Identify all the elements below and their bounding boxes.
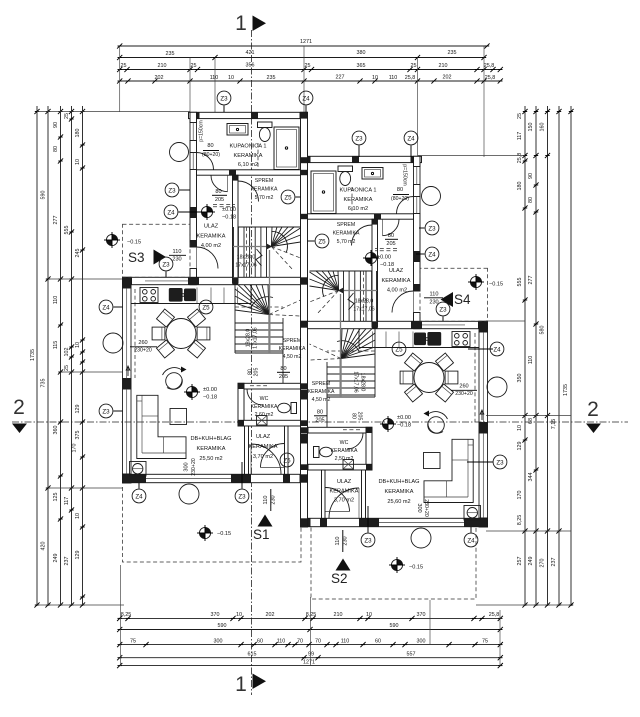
toilet upper	[258, 122, 273, 128]
section marker 1 bottom	[235, 673, 266, 696]
svg-text:1735: 1735	[30, 349, 36, 361]
bathroom door arc	[211, 175, 228, 192]
swivel chair	[163, 367, 187, 390]
left wall living section	[123, 277, 132, 288]
svg-text:277: 277	[53, 216, 59, 225]
svg-text:68: 68	[528, 418, 534, 424]
left housing unit graphics (also mirrored for right unit)	[103, 112, 308, 504]
level marker left entry	[199, 204, 215, 220]
svg-text:300: 300	[416, 503, 422, 512]
svg-text:344: 344	[528, 473, 534, 482]
svg-text:KERAMIKA: KERAMIKA	[197, 446, 226, 452]
ulaz/living divider walls	[245, 426, 249, 474]
svg-text:Z3: Z3	[364, 537, 372, 544]
svg-text:S4: S4	[454, 292, 471, 307]
svg-text:ULAZ: ULAZ	[256, 434, 271, 440]
svg-text:Z5: Z5	[395, 346, 403, 353]
svg-text:205: 205	[357, 412, 363, 421]
interior door ulaz-living left	[261, 444, 285, 468]
svg-text:KERAMIKA: KERAMIKA	[251, 187, 278, 193]
svg-text:110: 110	[389, 75, 398, 81]
svg-text:DB+KUH+BLAG: DB+KUH+BLAG	[378, 479, 419, 485]
svg-text:10: 10	[75, 159, 81, 165]
svg-text:110: 110	[341, 639, 350, 645]
svg-text:260: 260	[138, 340, 147, 346]
svg-text:ULAZ: ULAZ	[337, 479, 352, 485]
svg-text:7,15: 7,15	[551, 419, 557, 430]
svg-text:SPREM: SPREM	[337, 222, 355, 228]
svg-text:25,8: 25,8	[517, 153, 523, 164]
svg-text:±0.00: ±0.00	[222, 207, 236, 213]
window vent circle	[103, 333, 123, 353]
svg-text:Z4: Z4	[135, 493, 143, 500]
svg-text:SPREM: SPREM	[312, 381, 330, 387]
svg-text:237: 237	[551, 558, 557, 567]
left dimension strip	[30, 106, 85, 608]
svg-text:80: 80	[388, 233, 394, 239]
stair lower fan and treads	[235, 250, 301, 383]
svg-text:25,8: 25,8	[484, 63, 495, 69]
left unit room labels	[127, 120, 306, 537]
svg-text:Z3: Z3	[439, 306, 447, 313]
svg-text:210: 210	[334, 612, 343, 618]
svg-text:25,60 m2: 25,60 m2	[387, 499, 410, 505]
label Z5	[281, 190, 295, 204]
svg-text:Z3: Z3	[496, 459, 504, 466]
svg-text:KERAMIKA: KERAMIKA	[308, 389, 335, 395]
level marker right entry	[363, 250, 379, 266]
sprem5 floor line	[238, 226, 301, 228]
svg-text:18x28,0: 18x28,0	[355, 299, 374, 305]
label Z3	[159, 257, 173, 271]
svg-text:150: 150	[528, 123, 534, 132]
spram room wall (ulaz/stair divider)	[233, 175, 239, 283]
svg-text:±0.00: ±0.00	[377, 255, 391, 261]
svg-text:WC: WC	[340, 440, 349, 446]
label Z4	[404, 131, 418, 145]
svg-text:KERAMIKA: KERAMIKA	[344, 197, 373, 203]
svg-text:590: 590	[390, 623, 399, 629]
svg-text:129: 129	[517, 442, 523, 451]
svg-text:2,50 m2: 2,50 m2	[335, 456, 354, 462]
level marker bottom right	[389, 557, 405, 573]
svg-text:8,25: 8,25	[517, 515, 523, 526]
window2 80+20	[189, 153, 191, 170]
svg-text:110: 110	[335, 537, 341, 546]
svg-text:KERAMIKA: KERAMIKA	[279, 346, 306, 352]
svg-text:17x17,06: 17x17,06	[353, 371, 359, 392]
svg-text:300: 300	[214, 639, 223, 645]
level marker right terrace	[468, 274, 484, 290]
svg-text:2,60 m2: 2,60 m2	[255, 412, 274, 418]
svg-text:235: 235	[166, 51, 175, 57]
label Z3	[217, 91, 231, 105]
section line 1-1 vertical	[251, 30, 253, 695]
wc room	[238, 383, 302, 426]
label Z4	[490, 342, 504, 356]
svg-text:S1: S1	[253, 527, 270, 542]
svg-text:SPREM: SPREM	[255, 178, 273, 184]
terrace S2 dashed	[311, 528, 476, 600]
svg-text:90: 90	[528, 173, 534, 179]
svg-text:270: 270	[540, 559, 546, 568]
svg-text:420: 420	[41, 542, 47, 551]
section marker 2 right	[586, 398, 601, 433]
svg-text:580: 580	[540, 326, 546, 335]
washbasin	[227, 124, 248, 136]
svg-text:−0.18: −0.18	[222, 215, 236, 221]
S1 marker	[253, 489, 277, 542]
section marker 2 left	[12, 396, 27, 433]
S3 marker	[128, 250, 166, 266]
svg-text:−0.18: −0.18	[203, 395, 217, 401]
level marker left terrace	[104, 232, 120, 248]
svg-text:375: 375	[75, 431, 81, 440]
svg-text:1735: 1735	[563, 384, 569, 396]
section line 2-2 horizontal	[12, 421, 628, 423]
svg-text:205: 205	[254, 368, 260, 377]
label Z5	[199, 300, 213, 314]
label Z3	[352, 131, 366, 145]
label Z3	[493, 455, 507, 469]
wc toilet	[291, 403, 297, 414]
coffee table	[170, 409, 187, 425]
svg-text:10: 10	[372, 75, 378, 81]
svg-text:−0.18: −0.18	[380, 262, 394, 268]
svg-text:1: 1	[235, 673, 247, 696]
svg-text:±0.00: ±0.00	[203, 387, 217, 393]
svg-text:235: 235	[448, 50, 457, 56]
S2 marker	[331, 530, 351, 586]
svg-text:Z3: Z3	[162, 261, 170, 268]
svg-text:Z4: Z4	[493, 346, 501, 353]
svg-text:Z3: Z3	[220, 95, 228, 102]
svg-text:Z5: Z5	[318, 238, 326, 245]
svg-text:129: 129	[75, 551, 81, 560]
svg-text:249: 249	[53, 554, 59, 563]
svg-text:557: 557	[407, 652, 416, 658]
window1 150cm	[189, 123, 191, 141]
svg-text:6,10 m2: 6,10 m2	[348, 206, 368, 212]
svg-text:8,25: 8,25	[121, 612, 132, 618]
svg-text:Z4: Z4	[102, 304, 110, 311]
svg-text:17x17,06: 17x17,06	[235, 263, 256, 269]
svg-text:6,10 m2: 6,10 m2	[238, 162, 258, 168]
svg-text:205: 205	[315, 418, 324, 424]
svg-text:10: 10	[236, 612, 242, 618]
svg-text:3,70 m2: 3,70 m2	[334, 498, 354, 504]
svg-text:25: 25	[121, 63, 127, 69]
svg-text:230+20: 230+20	[423, 499, 429, 517]
svg-text:2: 2	[13, 396, 25, 419]
svg-text:230+20: 230+20	[134, 348, 152, 354]
svg-text:115: 115	[53, 341, 59, 350]
svg-text:−0.15: −0.15	[409, 565, 423, 571]
svg-text:80: 80	[317, 410, 323, 416]
ulaz exterior door arc	[251, 444, 281, 474]
svg-text:205: 205	[215, 197, 224, 203]
svg-text:237: 237	[64, 557, 70, 566]
svg-text:350: 350	[517, 374, 523, 383]
left wall upper section	[190, 112, 197, 122]
svg-text:170: 170	[72, 444, 78, 453]
svg-text:257: 257	[517, 557, 523, 566]
svg-text:−0.15: −0.15	[127, 240, 141, 246]
window sliding dash	[134, 289, 136, 378]
svg-text:300: 300	[184, 462, 190, 471]
svg-text:590: 590	[218, 623, 227, 629]
svg-text:S3: S3	[128, 250, 145, 265]
svg-text:Z4: Z4	[407, 135, 415, 142]
label Z4	[132, 489, 146, 503]
svg-text:1271: 1271	[300, 39, 312, 45]
svg-text:590: 590	[41, 191, 47, 200]
svg-text:300: 300	[417, 639, 426, 645]
svg-text:80: 80	[207, 143, 213, 149]
bathroom lower wall	[197, 170, 308, 175]
bathroom window circle	[170, 143, 189, 162]
svg-text:(80+20): (80+20)	[391, 196, 409, 202]
svg-text:202: 202	[155, 75, 164, 81]
svg-text:160: 160	[540, 123, 546, 132]
svg-text:230: 230	[343, 536, 349, 545]
label Z4	[464, 533, 478, 547]
circle below bottom wall	[179, 484, 199, 504]
svg-text:60: 60	[257, 639, 263, 645]
svg-text:Z4: Z4	[302, 95, 310, 102]
svg-text:KERAMIKA: KERAMIKA	[197, 234, 226, 240]
entry door arc	[197, 247, 219, 269]
svg-text:KUPAONICA 1: KUPAONICA 1	[230, 144, 267, 150]
svg-text:10: 10	[75, 513, 81, 519]
svg-text:75: 75	[130, 639, 136, 645]
svg-text:360: 360	[53, 426, 59, 435]
svg-text:117: 117	[517, 132, 523, 141]
svg-text:180: 180	[517, 182, 523, 191]
svg-text:p=150cm: p=150cm	[199, 120, 205, 142]
svg-text:KERAMIKA: KERAMIKA	[234, 153, 263, 159]
svg-text:1271: 1271	[303, 660, 315, 666]
lower window	[122, 389, 124, 477]
bathroom threshold dashes	[213, 204, 235, 206]
svg-text:110: 110	[277, 639, 286, 645]
label Z4	[425, 247, 439, 261]
svg-text:Z5: Z5	[284, 194, 292, 201]
svg-text:277: 277	[528, 276, 534, 285]
svg-text:KERAMIKA: KERAMIKA	[249, 444, 278, 450]
svg-text:KERAMIKA: KERAMIKA	[251, 404, 278, 410]
svg-text:10: 10	[517, 425, 523, 431]
svg-text:10: 10	[228, 75, 234, 81]
label Z3	[361, 533, 375, 547]
bottom wall living	[123, 474, 308, 482]
svg-text:210: 210	[158, 63, 167, 69]
svg-text:ULAZ: ULAZ	[389, 268, 404, 274]
window arrow	[126, 366, 130, 376]
svg-text:KUPAONICA 1: KUPAONICA 1	[340, 188, 377, 194]
svg-text:110: 110	[173, 249, 182, 255]
kitchen counter	[131, 285, 251, 304]
svg-text:25: 25	[64, 113, 70, 119]
svg-text:4,50 m2: 4,50 m2	[312, 397, 331, 403]
svg-text:75: 75	[482, 639, 488, 645]
svg-text:±0.00: ±0.00	[397, 415, 411, 421]
svg-text:125: 125	[53, 493, 59, 502]
shower	[274, 127, 299, 170]
svg-text:80: 80	[215, 189, 221, 195]
top wall	[189, 112, 308, 118]
svg-text:5,70 m2: 5,70 m2	[337, 239, 356, 245]
svg-text:230+20: 230+20	[191, 458, 197, 476]
level marker left living	[184, 384, 200, 400]
svg-text:205: 205	[386, 241, 395, 247]
svg-text:180: 180	[75, 129, 81, 138]
svg-text:KERAMIKA: KERAMIKA	[385, 489, 414, 495]
svg-text:230: 230	[172, 257, 181, 263]
sofa	[137, 395, 186, 458]
svg-text:KERAMIKA: KERAMIKA	[331, 448, 358, 454]
svg-text:(80+20): (80+20)	[202, 152, 220, 158]
svg-text:25,8: 25,8	[489, 612, 500, 618]
svg-text:245: 245	[75, 249, 81, 258]
svg-text:Z3: Z3	[238, 493, 246, 500]
svg-text:102: 102	[64, 348, 70, 357]
label Z3	[235, 489, 249, 503]
label Z3	[165, 183, 179, 197]
svg-text:370: 370	[417, 612, 426, 618]
svg-text:110: 110	[210, 75, 219, 81]
svg-text:Z3: Z3	[168, 187, 176, 194]
svg-text:ULAZ: ULAZ	[204, 224, 219, 230]
svg-text:Z4: Z4	[167, 209, 175, 216]
svg-text:5,70 m2: 5,70 m2	[255, 195, 274, 201]
label Z5	[315, 234, 329, 248]
svg-text:202: 202	[443, 75, 452, 81]
terrace S1 dashed	[123, 487, 302, 562]
svg-text:227: 227	[336, 75, 345, 81]
label Z3	[99, 404, 113, 418]
wc floor box	[257, 416, 268, 426]
svg-text:80: 80	[528, 197, 534, 203]
label Z3	[436, 302, 450, 316]
svg-text:380: 380	[357, 50, 366, 56]
svg-text:356: 356	[246, 63, 255, 69]
svg-text:25,8: 25,8	[485, 75, 496, 81]
svg-text:10: 10	[75, 342, 81, 348]
svg-text:235: 235	[267, 75, 276, 81]
svg-text:25,50 m2: 25,50 m2	[199, 456, 222, 462]
svg-text:−0.15: −0.15	[217, 531, 231, 537]
level marker bottom left	[197, 525, 213, 541]
svg-text:p=150cm: p=150cm	[402, 164, 408, 186]
svg-text:421: 421	[246, 50, 255, 56]
svg-text:205: 205	[279, 374, 288, 380]
svg-text:129: 129	[75, 405, 81, 414]
svg-text:117: 117	[64, 497, 70, 506]
party wall	[301, 112, 308, 527]
svg-text:8,25: 8,25	[306, 612, 317, 618]
svg-text:3,70 m2: 3,70 m2	[253, 454, 273, 460]
svg-text:25: 25	[64, 365, 70, 371]
svg-text:110: 110	[430, 292, 439, 298]
svg-text:80: 80	[280, 366, 286, 372]
svg-text:90: 90	[53, 122, 59, 128]
svg-text:KERAMIKA: KERAMIKA	[382, 278, 411, 284]
svg-text:2: 2	[587, 398, 599, 421]
svg-text:555: 555	[64, 226, 70, 235]
extension lines	[37, 46, 571, 666]
svg-text:18x28,0: 18x28,0	[237, 255, 256, 261]
svg-text:615: 615	[248, 652, 257, 658]
terrace S3 dashed	[123, 224, 191, 277]
svg-text:60: 60	[375, 639, 381, 645]
stair upper flight	[233, 227, 301, 277]
svg-text:370: 370	[211, 612, 220, 618]
svg-text:4,50 m2: 4,50 m2	[283, 354, 302, 360]
window 260/230+20	[122, 288, 124, 379]
svg-text:249: 249	[528, 557, 534, 566]
label Z4	[99, 300, 113, 314]
svg-text:Z3: Z3	[355, 135, 363, 142]
svg-text:18x28,0: 18x28,0	[246, 329, 252, 348]
label Z5	[280, 453, 294, 467]
living top wall	[123, 277, 308, 284]
corner box with circle	[130, 462, 147, 477]
svg-text:170: 170	[517, 491, 523, 500]
S4 marker	[441, 292, 472, 307]
level marker right living	[380, 416, 396, 432]
svg-text:17x17,06: 17x17,06	[253, 327, 259, 348]
svg-text:735: 735	[41, 379, 47, 388]
right unit = mirrored copy	[303, 156, 508, 548]
wc door arc	[247, 389, 263, 405]
svg-text:70: 70	[315, 639, 321, 645]
svg-text:Z3: Z3	[102, 408, 110, 415]
svg-text:230+20: 230+20	[455, 391, 473, 397]
svg-text:25: 25	[305, 63, 311, 69]
svg-text:25: 25	[191, 63, 197, 69]
svg-text:99: 99	[308, 652, 314, 658]
svg-text:110: 110	[528, 356, 534, 365]
svg-text:−0.15: −0.15	[489, 282, 503, 288]
svg-text:Z5: Z5	[202, 304, 210, 311]
interior door ulaz-living right (mirror)	[326, 488, 350, 512]
bottom dimension strip	[117, 612, 503, 668]
svg-text:S2: S2	[331, 571, 348, 586]
svg-text:80: 80	[53, 146, 59, 152]
svg-text:Z5: Z5	[283, 457, 291, 464]
label Z3	[425, 221, 439, 235]
svg-text:80: 80	[397, 187, 403, 193]
right dimension strip	[517, 106, 574, 608]
svg-text:25: 25	[411, 63, 417, 69]
section marker 1 top	[235, 12, 266, 35]
svg-text:1: 1	[235, 12, 247, 35]
svg-text:260: 260	[459, 384, 468, 390]
svg-text:365: 365	[357, 63, 366, 69]
svg-text:555: 555	[517, 278, 523, 287]
svg-text:−0.18: −0.18	[397, 423, 411, 429]
terrace window in living top wall	[145, 280, 188, 282]
label Z5	[392, 342, 406, 356]
svg-text:110: 110	[53, 296, 59, 305]
label Z4	[299, 91, 313, 105]
svg-text:25,8: 25,8	[405, 75, 416, 81]
svg-text:SPREM: SPREM	[283, 338, 301, 344]
top dimension strip	[117, 39, 503, 84]
svg-text:18x28,0: 18x28,0	[360, 373, 366, 392]
svg-text:110: 110	[263, 496, 269, 505]
